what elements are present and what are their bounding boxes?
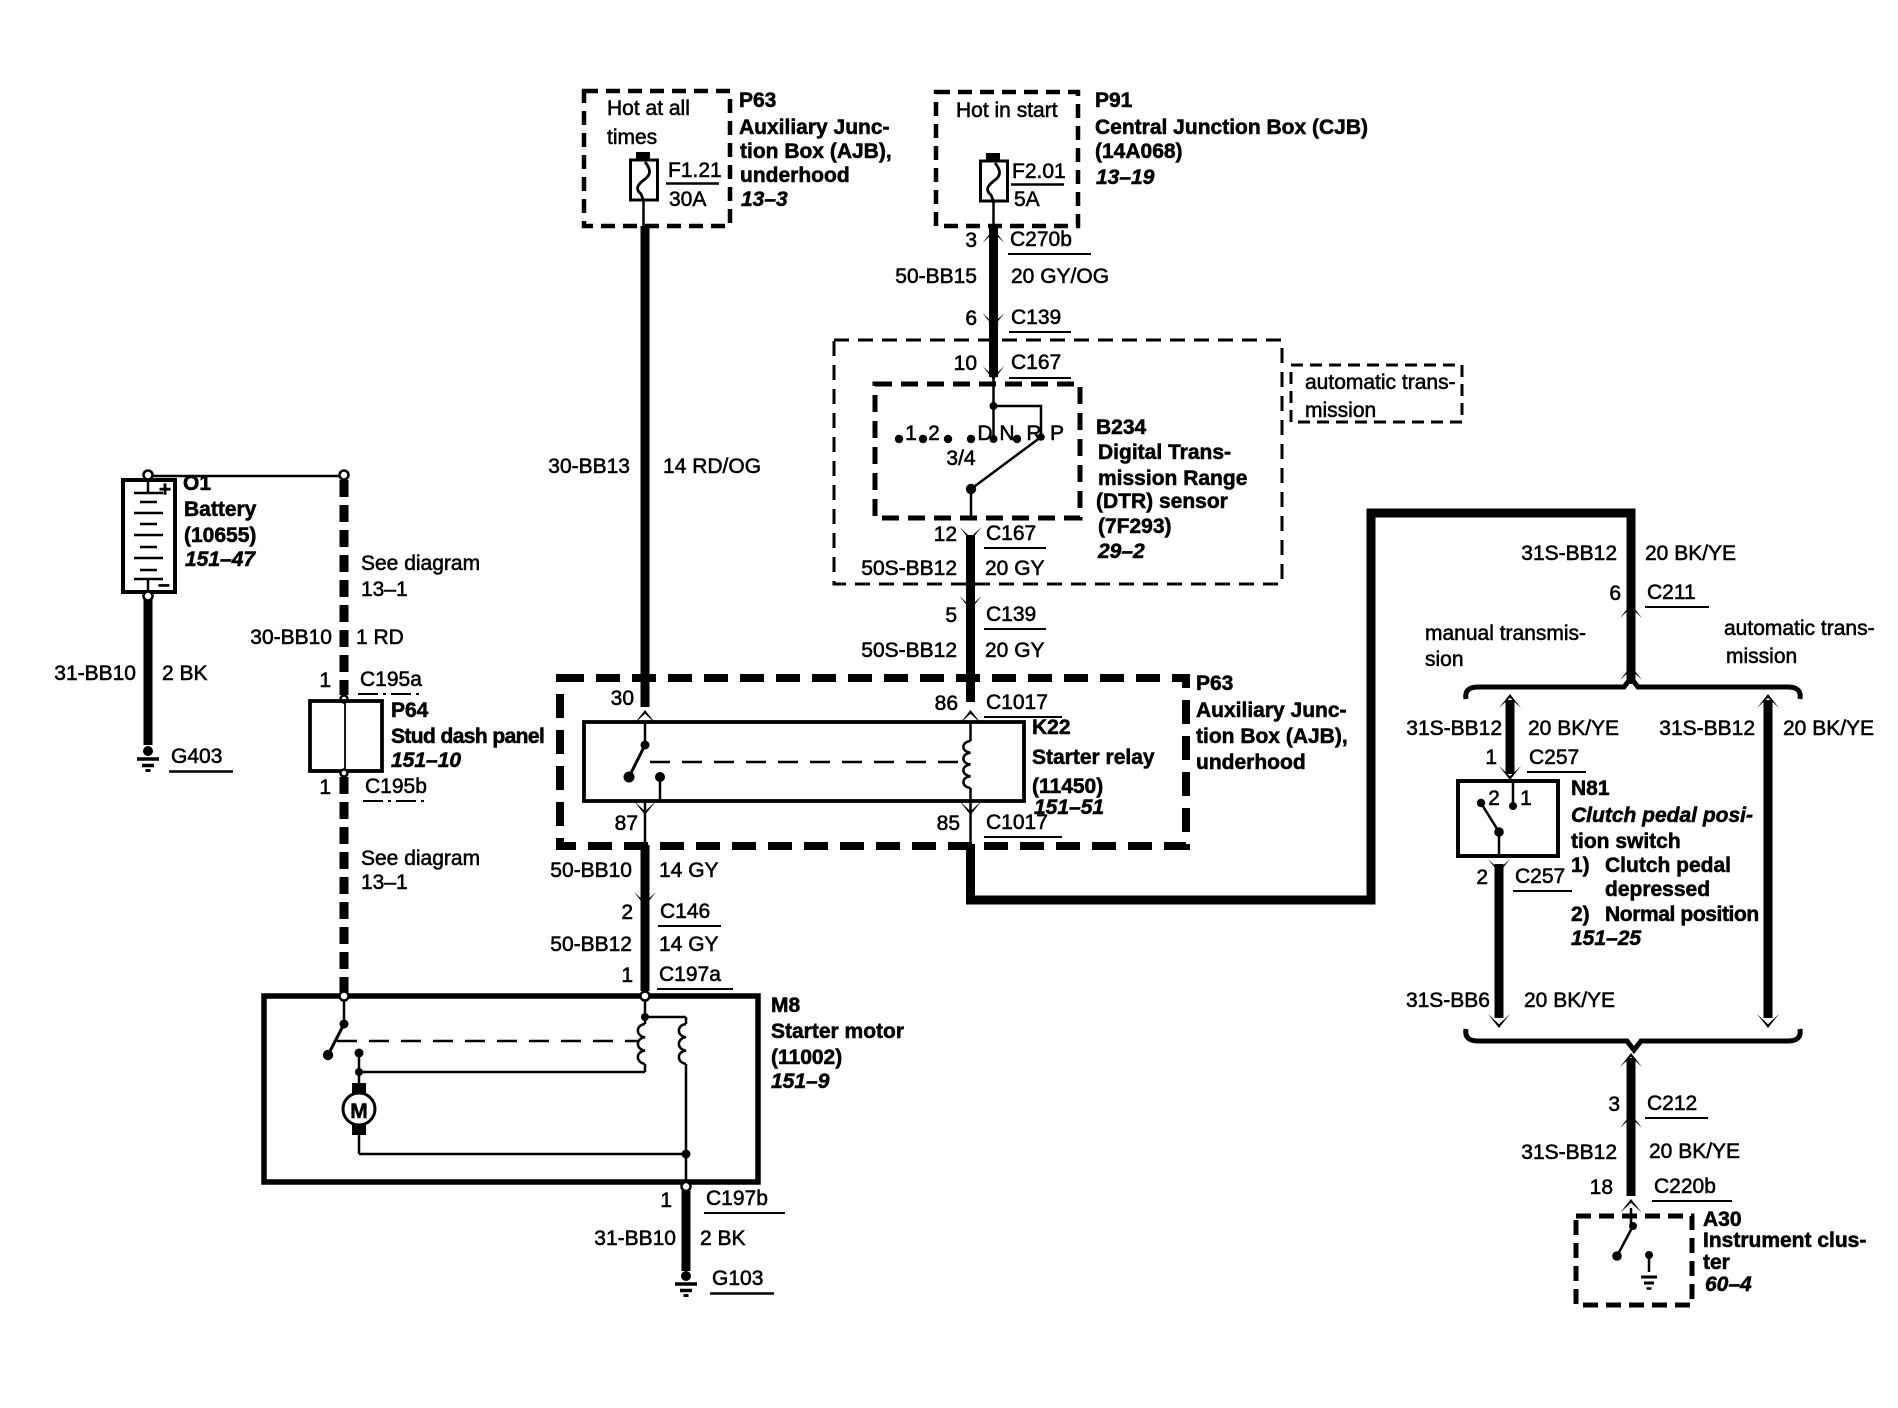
motor M <box>343 1083 375 1154</box>
svg-text:tion Box (AJB),: tion Box (AJB), <box>740 140 892 163</box>
wire 31S-BB12 20 BK/YE lower <box>1521 1140 1740 1164</box>
svg-text:2: 2 <box>928 422 940 445</box>
svg-text:30-BB10: 30-BB10 <box>250 626 332 649</box>
svg-text:C167: C167 <box>986 522 1036 545</box>
svg-text:Hot at all: Hot at all <box>607 97 690 120</box>
wire 50-BB15 20 GY/OG <box>895 226 1109 377</box>
svg-text:6: 6 <box>1609 582 1621 605</box>
svg-text:Hot in start: Hot in start <box>956 99 1058 122</box>
relay coil <box>963 722 970 801</box>
fuse box P91 Hot in start <box>936 92 1078 226</box>
svg-text:2 BK: 2 BK <box>162 662 208 685</box>
node C167 upper <box>954 351 1071 380</box>
node C197b <box>660 1182 785 1213</box>
svg-text:tion switch: tion switch <box>1571 830 1681 853</box>
svg-text:G403: G403 <box>171 745 222 768</box>
node C211 pin 6 <box>1609 581 1709 680</box>
svg-text:Digital Trans-: Digital Trans- <box>1098 441 1231 464</box>
svg-text:6: 6 <box>965 307 977 330</box>
ground G103 <box>675 1267 774 1296</box>
svg-text:automatic trans-: automatic trans- <box>1724 617 1875 640</box>
svg-text:sion: sion <box>1425 648 1464 671</box>
svg-text:(7F293): (7F293) <box>1098 515 1172 538</box>
solenoid windings <box>638 1000 686 1154</box>
svg-text:C257: C257 <box>1529 746 1579 769</box>
splice P64 stud dash panel <box>310 701 382 771</box>
svg-text:Starter relay: Starter relay <box>1032 746 1155 769</box>
svg-text:1: 1 <box>621 964 633 987</box>
svg-text:60–4: 60–4 <box>1705 1273 1752 1296</box>
svg-text:1): 1) <box>1571 854 1590 877</box>
relay pin 30 <box>611 687 656 724</box>
svg-text:D: D <box>977 422 992 445</box>
svg-text:2 BK: 2 BK <box>700 1227 746 1250</box>
node C220b pin 18 <box>1590 1175 1732 1226</box>
node C197a <box>621 963 733 989</box>
svg-text:13–1: 13–1 <box>361 871 408 894</box>
DTR sensor B234 inner box <box>875 384 1080 518</box>
svg-text:P63: P63 <box>739 89 776 112</box>
svg-text:2): 2) <box>1571 903 1590 926</box>
svg-text:13–1: 13–1 <box>361 578 408 601</box>
svg-text:underhood: underhood <box>1196 751 1306 774</box>
svg-text:P63: P63 <box>1196 672 1233 695</box>
svg-text:2: 2 <box>1476 866 1488 889</box>
svg-text:See diagram: See diagram <box>361 847 480 870</box>
M8 label text <box>771 994 904 1093</box>
svg-text:31-BB10: 31-BB10 <box>594 1227 676 1250</box>
node C139 upper <box>965 306 1071 332</box>
svg-text:31S-BB12: 31S-BB12 <box>1521 542 1617 565</box>
svg-text:30-BB13: 30-BB13 <box>548 455 630 478</box>
svg-text:20 GY/OG: 20 GY/OG <box>1011 265 1109 288</box>
starter motor M8 box <box>264 996 758 1182</box>
automatic transmission note box <box>1291 365 1462 422</box>
relay pin 87 <box>615 801 656 845</box>
svg-text:1: 1 <box>1485 746 1497 769</box>
svg-text:14 RD/OG: 14 RD/OG <box>663 455 761 478</box>
wire manual branch 31S-BB12 20 BK/YE <box>1406 694 1619 780</box>
svg-text:30: 30 <box>611 687 634 710</box>
node entry C197a circle <box>641 992 650 1001</box>
svg-text:tion Box (AJB),: tion Box (AJB), <box>1196 725 1348 748</box>
svg-text:Auxiliary Junc-: Auxiliary Junc- <box>1196 699 1347 722</box>
svg-text:151–47: 151–47 <box>185 548 256 571</box>
svg-text:12: 12 <box>934 523 957 546</box>
note manual transmission <box>1425 622 1586 671</box>
node C146 <box>550 892 721 956</box>
svg-text:times: times <box>607 126 657 149</box>
wire battery top horizontal <box>150 475 342 478</box>
starter relay K22 box <box>584 722 1024 801</box>
svg-text:31S-BB12: 31S-BB12 <box>1521 1141 1617 1164</box>
svg-text:30A: 30A <box>669 188 706 211</box>
svg-text:20 BK/YE: 20 BK/YE <box>1645 542 1736 565</box>
svg-text:Central Junction Box (CJB): Central Junction Box (CJB) <box>1095 116 1368 139</box>
svg-text:manual transmis-: manual transmis- <box>1425 622 1586 645</box>
relay contact switch <box>624 722 666 801</box>
svg-text:20 BK/YE: 20 BK/YE <box>1524 989 1615 1012</box>
svg-text:31S-BB6: 31S-BB6 <box>1406 989 1490 1012</box>
svg-text:C197b: C197b <box>706 1187 768 1210</box>
solenoid mechanical link dashed <box>337 1040 638 1043</box>
svg-text:K22: K22 <box>1032 716 1071 739</box>
svg-text:Instrument clus-: Instrument clus- <box>1703 1229 1866 1252</box>
svg-text:86: 86 <box>935 692 958 715</box>
svg-text:50-BB15: 50-BB15 <box>895 265 977 288</box>
svg-text:P91: P91 <box>1095 89 1133 112</box>
svg-text:13–19: 13–19 <box>1096 166 1155 189</box>
node C257 pin 2 <box>1476 859 1572 891</box>
svg-text:31-BB10: 31-BB10 <box>54 662 136 685</box>
svg-text:C1017: C1017 <box>986 691 1048 714</box>
svg-text:N81: N81 <box>1571 777 1610 800</box>
node entry from P64 wire <box>340 992 349 1001</box>
svg-text:C195b: C195b <box>365 775 427 798</box>
svg-text:Normal position: Normal position <box>1605 903 1759 926</box>
solenoid contact switch <box>323 1001 364 1087</box>
svg-text:20 GY: 20 GY <box>985 557 1045 580</box>
svg-text:B234: B234 <box>1096 416 1147 439</box>
svg-text:2: 2 <box>1488 787 1500 810</box>
svg-text:mission Range: mission Range <box>1098 467 1247 490</box>
svg-text:mission: mission <box>1305 399 1376 422</box>
N81 label text <box>1571 777 1759 950</box>
svg-text:1: 1 <box>319 776 331 799</box>
battery O1 <box>123 478 175 596</box>
fuse box P63 Hot at all times <box>584 91 730 226</box>
node C195a <box>341 696 348 703</box>
svg-text:(11450): (11450) <box>1032 775 1103 798</box>
instrument cluster A30 box <box>1576 1216 1692 1305</box>
svg-text:C211: C211 <box>1647 581 1696 604</box>
svg-text:5A: 5A <box>1014 188 1040 211</box>
svg-text:Starter motor: Starter motor <box>771 1020 904 1043</box>
N81 switch internals <box>1477 781 1532 856</box>
svg-text:87: 87 <box>615 812 638 835</box>
wire 31S-BB6 20 BK/YE <box>1406 864 1615 1028</box>
svg-text:14 GY: 14 GY <box>659 933 719 956</box>
DTR selector arm <box>966 433 1045 517</box>
svg-text:31S-BB12: 31S-BB12 <box>1406 717 1502 740</box>
svg-text:3: 3 <box>1608 1093 1620 1116</box>
svg-text:P: P <box>1050 422 1064 445</box>
node C212 pin 3 <box>1608 1092 1708 1128</box>
A30 label text <box>1703 1208 1866 1296</box>
K22 label text <box>1032 716 1155 819</box>
svg-text:C257: C257 <box>1515 865 1565 888</box>
svg-text:underhood: underhood <box>740 164 850 187</box>
svg-text:50-BB12: 50-BB12 <box>550 933 632 956</box>
svg-text:depressed: depressed <box>1605 878 1710 901</box>
svg-text:–: – <box>158 573 170 596</box>
wire motor return <box>359 1150 691 1184</box>
svg-text:151–9: 151–9 <box>771 1070 830 1093</box>
AJB P63 dashed enclosure around relay <box>560 678 1186 846</box>
svg-text:1: 1 <box>319 669 331 692</box>
svg-text:C139: C139 <box>986 603 1036 626</box>
svg-text:ter: ter <box>1703 1251 1730 1274</box>
svg-text:C212: C212 <box>1647 1092 1697 1115</box>
wire 31-BB10 2 BK to G103 <box>594 1191 745 1271</box>
relay pin 86 <box>935 691 1062 724</box>
wire into DTR pin 10 <box>990 376 1042 443</box>
svg-text:N: N <box>999 422 1014 445</box>
svg-text:50S-BB12: 50S-BB12 <box>861 639 957 662</box>
A30 internal ground <box>1641 1251 1657 1289</box>
svg-text:Battery: Battery <box>184 498 257 521</box>
svg-text:C195a: C195a <box>360 668 422 691</box>
svg-text:1: 1 <box>660 1189 672 1212</box>
note automatic transmission <box>1724 617 1875 668</box>
svg-text:20 GY: 20 GY <box>985 639 1045 662</box>
svg-text:F1.21: F1.21 <box>668 159 722 182</box>
node battery negative terminal <box>144 592 153 601</box>
wire pull-in winding to contact <box>355 1068 645 1076</box>
wire relay 85 to clutch circuit (thick L path) <box>971 513 1632 900</box>
relay pin 85 <box>937 801 1062 846</box>
svg-text:50-BB10: 50-BB10 <box>550 859 632 882</box>
svg-text:13–3: 13–3 <box>741 188 788 211</box>
svg-text:10: 10 <box>954 352 977 375</box>
splice brace bottom <box>1466 1029 1801 1050</box>
node C139 lower pin 5 <box>861 596 1046 662</box>
svg-text:20 BK/YE: 20 BK/YE <box>1783 717 1874 740</box>
svg-text:14 GY: 14 GY <box>659 859 719 882</box>
relay mechanical link dashed <box>650 761 961 764</box>
svg-text:2: 2 <box>621 901 633 924</box>
svg-text:Auxiliary Junc-: Auxiliary Junc- <box>739 116 890 139</box>
svg-text:(14A068): (14A068) <box>1095 140 1183 163</box>
svg-text:1: 1 <box>905 422 917 445</box>
svg-text:151–25: 151–25 <box>1571 927 1641 950</box>
P64 label text <box>391 699 544 772</box>
node battery positive terminal <box>144 471 153 480</box>
svg-text:C270b: C270b <box>1010 228 1072 251</box>
svg-text:P64: P64 <box>391 699 429 722</box>
svg-text:1: 1 <box>1520 787 1532 810</box>
svg-text:C197a: C197a <box>659 963 721 986</box>
svg-text:C167: C167 <box>1011 351 1061 374</box>
wire 30-BB10 dashed lower <box>344 777 480 992</box>
svg-text:automatic trans-: automatic trans- <box>1305 371 1456 394</box>
P63 AJB label text top <box>739 89 892 211</box>
wire 50S-BB12 20 GY upper <box>861 535 1044 702</box>
svg-text:C139: C139 <box>1011 306 1061 329</box>
svg-text:Clutch pedal posi-: Clutch pedal posi- <box>1571 804 1753 827</box>
node junction to 30-BB10 <box>340 471 349 480</box>
node C167 lower pin 12 <box>934 522 1046 548</box>
wire below brace to instrument cluster <box>1620 1053 1642 1196</box>
wire 31S-BB12 20 BK/YE at C211 <box>1521 542 1736 565</box>
svg-text:Clutch pedal: Clutch pedal <box>1605 854 1731 877</box>
svg-text:M8: M8 <box>771 994 800 1017</box>
svg-text:(11002): (11002) <box>771 1046 842 1069</box>
ground G403 <box>137 745 233 772</box>
svg-text:G103: G103 <box>712 1267 763 1290</box>
svg-text:M: M <box>350 1100 368 1123</box>
svg-text:3: 3 <box>965 229 977 252</box>
svg-text:+: + <box>159 478 171 501</box>
battery O1 label text <box>183 472 257 571</box>
svg-text:(10655): (10655) <box>184 524 256 547</box>
wire automatic branch 31S-BB12 20 BK/YE <box>1659 694 1874 1028</box>
splice brace top <box>1466 678 1801 699</box>
fuse F1.21 30A <box>631 152 722 226</box>
svg-text:50S-BB12: 50S-BB12 <box>861 557 957 580</box>
svg-text:C1017: C1017 <box>986 811 1048 834</box>
DTR outer dashed enclosure <box>834 340 1282 584</box>
svg-text:(DTR) sensor: (DTR) sensor <box>1096 490 1228 513</box>
B234 label text <box>1096 416 1247 563</box>
wire 50-BB10 14 GY <box>550 845 718 991</box>
svg-text:See diagram: See diagram <box>361 552 480 575</box>
P91 CJB label text <box>1095 89 1368 189</box>
svg-text:A30: A30 <box>1703 1208 1742 1231</box>
svg-text:151–10: 151–10 <box>391 749 461 772</box>
A30 switch internals <box>1612 1222 1637 1261</box>
DTR range contacts <box>895 422 1064 470</box>
svg-text:29–2: 29–2 <box>1097 540 1145 563</box>
node C257 pin 1 <box>1485 746 1586 772</box>
svg-text:31S-BB12: 31S-BB12 <box>1659 717 1755 740</box>
svg-text:1 RD: 1 RD <box>356 626 404 649</box>
fuse F2.01 5A <box>981 153 1066 226</box>
svg-text:C146: C146 <box>660 900 710 923</box>
clutch pedal position switch N81 box <box>1458 781 1558 856</box>
svg-text:20 BK/YE: 20 BK/YE <box>1649 1140 1740 1163</box>
svg-text:mission: mission <box>1726 645 1797 668</box>
P63 AJB label text right <box>1196 672 1348 774</box>
svg-text:F2.01: F2.01 <box>1012 160 1066 183</box>
svg-text:18: 18 <box>1590 1176 1613 1199</box>
svg-text:5: 5 <box>945 604 957 627</box>
svg-text:Stud dash panel: Stud dash panel <box>391 725 544 748</box>
svg-text:85: 85 <box>937 812 960 835</box>
wire 30-BB13 14 RD/OG <box>548 226 761 707</box>
node C195b <box>319 770 427 802</box>
wire 30-BB10 1 RD dashed upper <box>250 480 480 695</box>
svg-text:3/4: 3/4 <box>946 447 976 470</box>
svg-text:20 BK/YE: 20 BK/YE <box>1528 717 1619 740</box>
wire 31-BB10 2 BK battery to ground <box>54 600 207 745</box>
svg-text:C220b: C220b <box>1654 1175 1716 1198</box>
